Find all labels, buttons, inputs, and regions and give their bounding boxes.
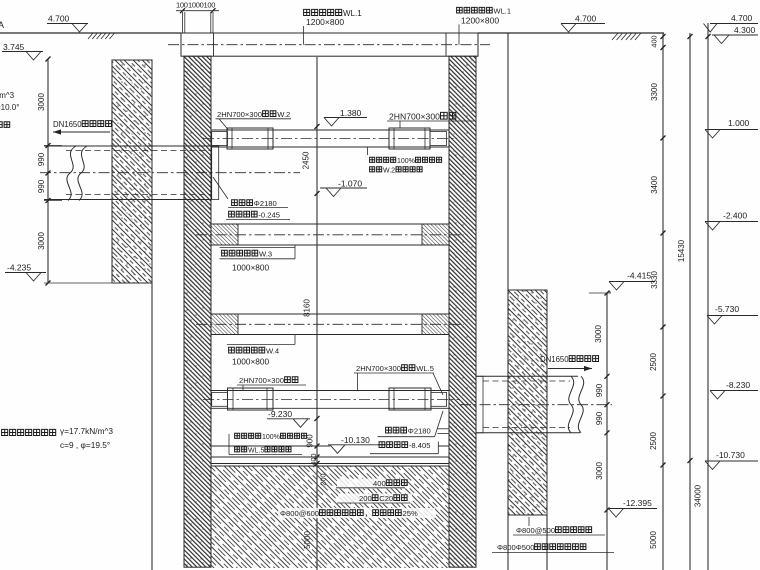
svg-text:34000: 34000 [694,484,703,507]
svg-text:100%: 100% [262,434,280,441]
svg-text:4.300: 4.300 [734,25,756,35]
svg-text:-1.070: -1.070 [338,179,362,189]
slab bottom line [211,456,449,458]
left pipe centerline [40,172,300,174]
svg-text:=10.0°: =10.0° [0,103,19,112]
strut WL2 lines [211,129,449,131]
svg-text:990: 990 [595,411,604,425]
svg-text:4.700: 4.700 [48,14,70,24]
svg-text:1200×800: 1200×800 [461,16,499,26]
svg-text:1000: 1000 [188,1,204,10]
svg-text:-9.230: -9.230 [268,409,292,419]
svg-text:100%: 100% [397,158,415,165]
right jet-grout block [508,290,547,515]
svg-text:2HN700×300: 2HN700×300 [239,376,284,385]
svg-text:-8.405: -8.405 [409,441,431,450]
svg-text:990: 990 [37,152,46,166]
dim 34000 [707,23,709,570]
waler beam WL5 left [228,388,274,410]
label 200 C20 [338,494,412,504]
svg-text:100: 100 [176,1,188,10]
svg-text:-10.730: -10.730 [716,450,745,460]
waler beam WL2 left [227,128,273,149]
right pipe top line [476,375,578,377]
left jet-grout wall [112,60,152,283]
ground hatch ticks left [88,33,93,39]
beam WL4 right block [422,314,449,335]
right diaphragm wall [449,56,476,567]
left pipe bottom inner dashed [66,194,212,196]
beam WL4 lines [211,313,449,315]
svg-text:1000×800: 1000×800 [232,263,270,273]
label WL1 left [304,9,342,15]
WL2 right stub [430,132,447,146]
svg-text:100: 100 [204,1,216,10]
svg-text:2HN700×300: 2HN700×300 [356,364,401,373]
svg-text:3330: 3330 [650,271,659,289]
right curtain line 2 [546,515,548,570]
slab top line [211,445,330,447]
blinding bottom line [211,463,449,465]
right pipe bottom dashed [483,427,570,429]
svg-text:3000: 3000 [37,232,46,250]
beam WL3 lines [211,223,449,225]
svg-text:W.2: W.2 [277,110,290,119]
beam WL3 centerline [196,234,464,236]
note remove WL2 [370,157,396,162]
svg-text:200: 200 [359,494,372,503]
svg-text:1.000: 1.000 [728,118,750,128]
svg-text:/m^3: /m^3 [0,91,15,100]
svg-text:Φ2180: Φ2180 [254,199,277,208]
svg-text:Φ800@500: Φ800@500 [516,526,555,535]
svg-text:4.700: 4.700 [575,14,597,24]
svg-text:4.700: 4.700 [731,13,753,23]
beam WL3 right block [422,224,449,245]
beam WL4 centerline [196,323,464,325]
label pipe hole left [232,200,253,206]
svg-text:990: 990 [595,383,604,397]
left pipe crown ext [44,145,62,147]
label WL3 [220,246,296,248]
left pipe break symbol [67,146,76,201]
right inner dim chain 3000/990/990/3000 [606,293,608,570]
svg-text:c=9 , φ=19.5°: c=9 , φ=19.5° [60,440,110,450]
note remove WL5 [235,433,261,438]
left pipe bottom line [44,199,212,201]
svg-text:-4.415: -4.415 [627,271,651,281]
label WL4 [227,344,295,346]
label WL1 right [457,7,493,13]
svg-text:WL.5: WL.5 [248,448,264,455]
svg-text:-8.230: -8.230 [726,380,750,390]
strut WL5 lines [211,390,449,392]
svg-text:15430: 15430 [677,239,686,262]
right pipe top dashed [483,380,570,382]
svg-text:1200×800: 1200×800 [306,17,344,27]
dim 15430 [689,33,691,570]
cap beam WL1 outline [181,33,478,56]
svg-text:Φ800Φ500: Φ800Φ500 [497,543,534,552]
left pipe top line [44,145,212,147]
svg-text:3000: 3000 [37,93,46,111]
left dimension chain 3000/990/990/3000 [47,59,49,283]
cap beam WL1 right section edge [445,33,447,56]
svg-text:2500: 2500 [649,353,658,371]
svg-text:2HN700×300: 2HN700×300 [389,112,440,122]
svg-text:-0.245: -0.245 [258,211,280,220]
svg-text:2450: 2450 [302,151,311,169]
svg-text:-4.235: -4.235 [7,263,31,273]
svg-text:W.3: W.3 [259,250,272,259]
svg-text:-2.400: -2.400 [723,211,747,221]
svg-text:WL.5: WL.5 [416,364,434,373]
arrow left [53,131,110,133]
left pipe wall sleeve [212,146,219,200]
left curtain line [151,283,153,570]
right pipe wall sleeve [476,376,483,433]
svg-text:1000×800: 1000×800 [232,357,270,367]
svg-text:25%: 25% [403,509,418,518]
waler beam WL5 right [389,388,431,410]
waler beam WL2 right [389,128,430,149]
chain start ext [589,292,611,294]
ground hatch ticks right [612,33,618,40]
soil text lower [2,429,56,435]
label jet grout base [278,508,435,518]
svg-text:W.4: W.4 [266,347,279,356]
outer dim chain 400/3300/3400/3330/2500/2500/5000 [662,33,664,570]
svg-text:-5.730: -5.730 [715,304,739,314]
svg-text:，: ， [365,509,373,518]
svg-text:Φ2180: Φ2180 [408,427,431,436]
left pipe top inner dashed [66,150,212,152]
right pipe centerline [460,404,612,406]
svg-text:W.2: W.2 [383,168,395,175]
right curtain line [507,33,509,570]
svg-text:400: 400 [650,35,659,47]
label 400 slab [337,479,406,489]
svg-text:DN1650: DN1650 [540,355,569,364]
right pipe bottom line [476,432,580,434]
svg-text:DN1650: DN1650 [53,120,82,129]
svg-text:Φ800@600: Φ800@600 [280,509,319,518]
svg-text:3000: 3000 [595,462,604,480]
svg-text:2HN700×300: 2HN700×300 [217,110,262,119]
internal dimension chain 2450/8160/900/400/200/5000 [316,57,318,570]
slab hatch top line [211,465,449,467]
beam WL4 left block [211,314,238,335]
svg-text:5000: 5000 [649,531,658,549]
svg-text:990: 990 [37,179,46,193]
left wall bottom ext [44,282,152,284]
WL5 left stub [212,393,228,407]
svg-text:-12.395: -12.395 [623,498,652,508]
svg-text:1.380: 1.380 [340,108,362,118]
svg-text:-10.130: -10.130 [341,435,370,445]
WL2 left stub [212,132,228,146]
strut WL2 centerline [203,138,457,140]
ground line left [0,32,181,34]
svg-text:C20: C20 [379,494,393,503]
svg-text:WL.1: WL.1 [343,9,362,18]
svg-text:3300: 3300 [650,83,659,101]
svg-text:3.745: 3.745 [3,42,25,52]
svg-text:WL.1: WL.1 [494,7,512,16]
jet grout base slab [211,466,449,568]
cap beam WL1 centerline [168,44,490,46]
label pipe hole right [386,427,407,433]
left diaphragm wall [184,56,211,567]
svg-text:2500: 2500 [649,432,658,450]
svg-text:3400: 3400 [650,176,659,194]
svg-text:γ=17.7kN/m^3: γ=17.7kN/m^3 [60,426,113,436]
svg-text:3000: 3000 [594,325,603,343]
svg-text:A: A [0,20,4,30]
svg-text:400: 400 [373,479,386,488]
ground line right [478,32,664,34]
left pipe invert ext [44,200,62,202]
arrow right [548,368,592,370]
strut WL5 centerline [203,399,460,401]
cap beam WL1 left section edge [213,33,215,56]
right pipe break symbol [568,376,573,433]
beam WL3 left block [211,224,238,245]
WL5 right stub [431,393,447,407]
